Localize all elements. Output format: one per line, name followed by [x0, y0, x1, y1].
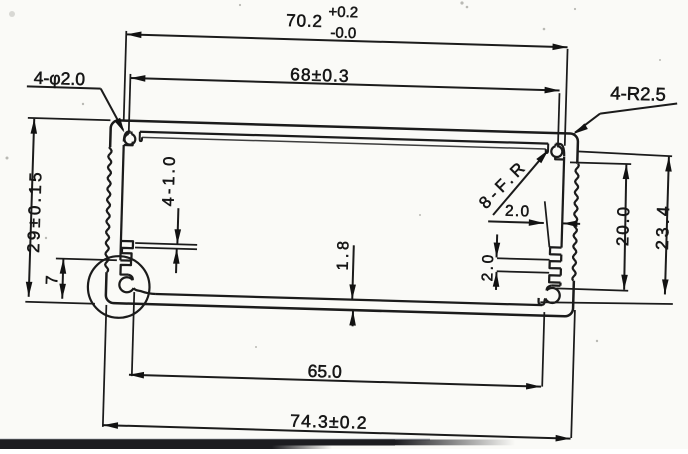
profile outer contour bottom-right corner: [106, 267, 574, 316]
top-left screw boss phi2.0 hole: [124, 134, 135, 145]
left wall inner face line: [120, 145, 123, 260]
top-right boss inner corner fillet: [555, 144, 564, 157]
faint scanner speckles: [6, 1, 662, 348]
left outer serrated fin edge: [105, 147, 112, 272]
dim 2.0 (tooth pitch) arrows: [496, 234, 499, 257]
svg-text:2.0: 2.0: [505, 203, 531, 221]
left PCB rail comb (4-1.0 slots): [120, 241, 133, 261]
dim 29 dimension line: [29, 119, 35, 297]
svg-text:4-φ2.0: 4-φ2.0: [34, 68, 86, 89]
detail circle around bottom-left boss: [87, 255, 150, 318]
dim 20.0 dimension line: [623, 164, 628, 290]
dim 65.0 extension line left: [132, 292, 134, 376]
svg-text:2.0: 2.0: [479, 252, 497, 282]
dim 20.0 extension line top: [570, 162, 631, 164]
leader 4-R2.5 with landing: [600, 101, 677, 116]
bottom-left screw boss (E-shaped, in detail circle): [120, 260, 131, 274]
dim 68 dimension line: [130, 78, 559, 90]
dim 23.4 extension line bottom: [540, 300, 673, 306]
right PCB rail comb teeth: [550, 247, 562, 254]
dim 74.3 dimension line: [103, 425, 571, 439]
dim 4-1.0 arrows: [177, 208, 178, 244]
scan artifact: faint top-left smudge: [9, 11, 15, 17]
dim 29 extension line top: [28, 118, 111, 120]
top cover-slot lip line: [142, 137, 546, 149]
svg-text:20.0: 20.0: [613, 205, 633, 247]
top-right screw boss phi2.0 hole: [551, 146, 562, 157]
dim 2.0 (tooth depth) arrows: [488, 221, 544, 223]
dim 2.0 (tooth depth) extension line: [543, 201, 550, 247]
leader 4-phi2.0 with underline: [27, 86, 101, 88]
dim 68 extension line right: [558, 93, 560, 147]
dim 23.4 dimension line: [665, 156, 669, 294]
leader 8-F.R: [493, 149, 548, 216]
profile outer contour top-left corner: [110, 120, 119, 147]
top-right slot end U-step: [546, 144, 549, 153]
dim 65.0 extension line right: [542, 312, 544, 387]
dim 4-1.0 extension lines: [135, 243, 197, 245]
svg-text:-0.0: -0.0: [330, 24, 356, 42]
dim 70.2 extension line left: [124, 31, 127, 121]
dim 29/7 extension line bottom: [25, 302, 95, 304]
top-left slot end U-step: [140, 132, 143, 141]
right outer serrated fin edge: [572, 164, 579, 281]
profile outer contour (enclosure cross-section): [118, 120, 578, 163]
bottom wall inner face line: [156, 294, 542, 305]
dim 70.2 extension line right: [565, 49, 568, 146]
dim 65.0 dimension line: [129, 375, 541, 387]
top-left boss inner corner fillet: [124, 131, 130, 141]
dim 7 extension line top: [56, 258, 117, 260]
bottom-right screw boss (mirrored): [552, 284, 561, 287]
svg-text:74.3±0.2: 74.3±0.2: [290, 411, 368, 433]
dim 23.4 extension line top: [577, 151, 672, 156]
dim 74.3 extension line left: [103, 305, 107, 427]
dim 1.8 arrows (bottom wall thickness): [352, 245, 354, 299]
svg-text:23.4: 23.4: [652, 203, 673, 250]
dim 74.3 extension line right: [571, 310, 575, 438]
top-right boss foot lip: [555, 156, 564, 160]
svg-text:1.8: 1.8: [335, 237, 353, 270]
dim 20.0 extension line bottom: [556, 288, 628, 290]
dim 68 extension line left: [129, 74, 131, 133]
svg-text:+0.2: +0.2: [328, 4, 358, 22]
dim 2.0 (tooth pitch) extension lines: [497, 258, 549, 260]
svg-text:68±0.3: 68±0.3: [290, 64, 350, 86]
svg-text:70.2: 70.2: [286, 10, 323, 31]
svg-text:4-R2.5: 4-R2.5: [610, 82, 666, 105]
svg-text:4-1.0: 4-1.0: [159, 153, 179, 206]
svg-text:29±0.15: 29±0.15: [24, 169, 45, 253]
dim 70.2 dimension line: [126, 34, 567, 47]
svg-text:65.0: 65.0: [307, 361, 342, 382]
top-left boss foot lip: [124, 141, 133, 145]
top wall inner face line: [140, 132, 548, 144]
dim 7 dimension line: [62, 259, 63, 299]
svg-text:7: 7: [43, 275, 61, 285]
right wall inner face line: [562, 157, 565, 248]
